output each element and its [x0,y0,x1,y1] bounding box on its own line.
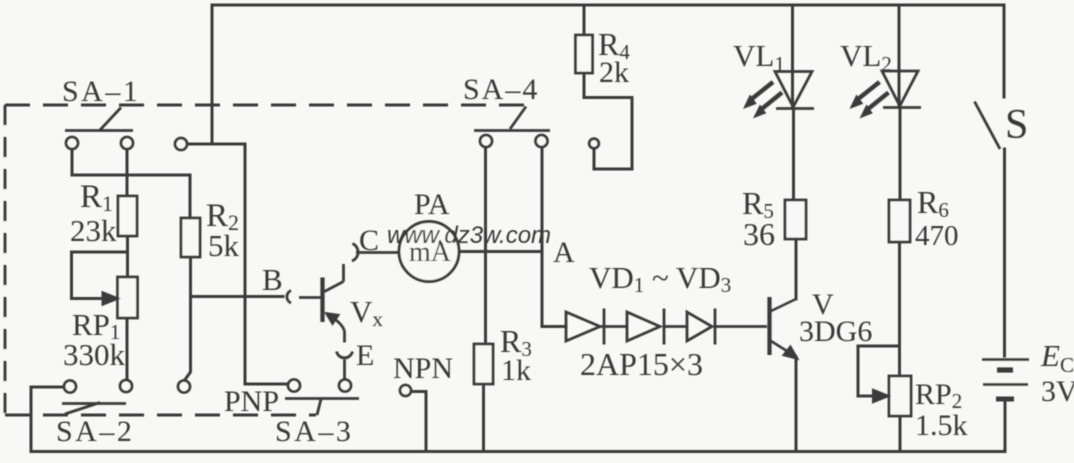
wire SA-4 left contact down to R3 [484,147,487,345]
switch SA-3 contacts [288,380,300,392]
svg-text:SA–1: SA–1 [62,75,140,108]
svg-text:SA–4: SA–4 [463,73,539,106]
svg-text:A: A [553,236,575,269]
wire V emitter to bottom rail [795,357,798,452]
LED VL1 [744,72,814,118]
wire meter to node A [459,250,542,253]
switch SA-1 contacts [66,137,78,149]
svg-text:36: 36 [743,216,775,252]
wire NPN terminal to bottom rail [411,392,427,452]
svg-text:VD1 ~ VD3: VD1 ~ VD3 [589,260,731,297]
wire R5 to V collector [795,239,798,299]
clip hook C [352,244,358,262]
wire R4 bottom hook to spare contact [584,73,632,169]
svg-text:B: B [262,262,283,297]
wire bottom rail [31,450,1005,453]
wire S upper lead [1003,5,1006,97]
clip hook B [287,291,291,304]
clip hook E with stem [337,352,353,381]
wire RP2 bottom [899,416,902,452]
wire R6 to RP2 [898,242,901,376]
switch SA-4 arm [474,107,550,131]
wire node B horizontal [191,295,284,298]
potentiometer RP2 [889,376,911,416]
switch SA-4 contacts [480,135,492,147]
resistor R4 [576,35,593,73]
switch SA-2 arm [62,403,126,415]
wire R2 column to third contact [184,297,191,382]
wire battery to bottom rail [1004,399,1007,452]
wire RP1 wiper link [72,252,128,299]
svg-text:SA–3: SA–3 [275,415,353,448]
svg-text:PNP: PNP [224,385,279,418]
svg-text:1k: 1k [501,354,531,387]
wire R4 top [583,5,586,35]
terminal NPN [400,385,411,396]
diode VD1 [566,309,627,345]
resistor R3 [474,344,493,384]
battery EC [982,360,1029,400]
svg-text:C: C [359,224,379,257]
wire VL2 to R6 [899,108,902,201]
diode VD2 [627,309,687,345]
svg-text:2AP15×3: 2AP15×3 [580,346,703,382]
wire R2 bottom [189,257,192,297]
wire SA-1 pole3 to long vertical [187,144,289,384]
resistor R5 [785,200,806,239]
wire R1 to RP1 [126,236,129,277]
svg-text:5k: 5k [208,228,240,263]
wire S lower lead to battery [1003,149,1006,356]
wire RP2 wiper link [858,346,900,396]
wire node A down to diodes [542,252,566,327]
svg-text:E: E [356,339,374,372]
svg-text:PA: PA [414,188,450,221]
svg-text:1.5k: 1.5k [915,409,968,442]
svg-text:23k: 23k [70,213,117,248]
wire drop from top rail to SA-1 row [211,5,214,144]
svg-text:470: 470 [915,220,959,252]
resistor R1 [118,196,137,236]
wire SA-4 right contact down to node A [541,147,544,252]
resistor R2 [181,218,200,257]
dashed gang line top [5,104,525,107]
potentiometer RP1 [118,277,138,318]
diode VD3 [687,309,767,345]
svg-text:SA–2: SA–2 [56,415,134,448]
svg-text:3V: 3V [1041,375,1074,408]
wire top rail [212,4,1004,7]
LED VL2 [851,71,922,118]
meter PA [399,222,459,282]
wire VL1 to R5 [792,109,795,200]
wire VL1 top [791,5,794,108]
svg-text:3DG6: 3DG6 [799,315,872,348]
switch SA-3 arm [285,399,359,416]
switch SA-1 arm [65,108,133,131]
svg-text:NPN: NPN [393,352,453,385]
wire SA-1 pole2 down to R1 [126,149,129,197]
dashed gang line left [4,105,7,415]
svg-text:2k: 2k [599,56,629,89]
switch S blade [975,102,1001,150]
wire SA-1 pole1 down and across to R2 [72,149,190,219]
transistor V 3DG6 [770,297,799,360]
svg-text:S: S [1005,102,1028,148]
switch SA-2 contacts [64,381,76,393]
transistor Vx under test [299,264,345,343]
dashed gang line bottom [5,414,316,417]
spare contact of SA-4 [589,139,599,149]
resistor R6 [889,200,910,242]
wire RP1 bottom to SA-2 [126,318,129,381]
wire R3 bottom [482,384,485,452]
wire bottom rail to SA-2 left contact [31,387,65,452]
svg-text:www.dz3w.com: www.dz3w.com [387,222,551,249]
svg-text:330k: 330k [63,337,126,372]
wire VL2 top [898,5,901,107]
